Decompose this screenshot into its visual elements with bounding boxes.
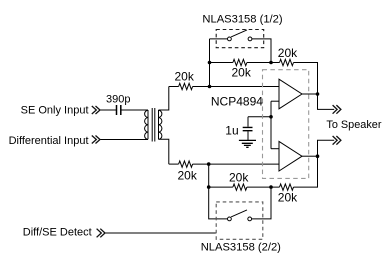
wire upper switch right contact xyxy=(252,39,271,63)
junction dot upper gain node right xyxy=(269,61,273,65)
wire Differential Input to T1 primary bottom xyxy=(99,139,148,141)
svg-text:To Speaker: To Speaker xyxy=(326,119,381,131)
svg-text:NCP4894: NCP4894 xyxy=(211,94,263,108)
capacitor C1 390p xyxy=(117,105,121,115)
resistor R2 20k (lower input) xyxy=(179,161,193,167)
transformer T1 secondary winding xyxy=(159,110,162,139)
wire lower input line to op-amp xyxy=(193,163,279,165)
svg-text:390p: 390p xyxy=(106,94,130,106)
resistor R4 20k (upper feedback) xyxy=(280,59,294,65)
chevron Differential Input xyxy=(92,136,100,144)
resistor R6 20k (lower feedback) xyxy=(280,184,294,190)
svg-text:20k: 20k xyxy=(175,69,195,83)
wire upper input line left segment xyxy=(169,86,179,88)
op-amp U1a inverting input stub xyxy=(271,100,279,102)
wire internal reference tie xyxy=(270,101,272,149)
wire C1 to transformer T1 primary top xyxy=(121,109,148,111)
chevron output bottom xyxy=(333,136,341,145)
switch S1 actuator xyxy=(231,30,247,37)
wire upper input line to op-amp xyxy=(193,86,279,88)
wire upper switch left contact xyxy=(210,38,228,40)
wire SE input to C1 xyxy=(99,109,116,111)
svg-text:NLAS3158 (2/2): NLAS3158 (2/2) xyxy=(201,241,281,253)
wire lower switch right contact xyxy=(252,187,271,219)
wire C2 to ground xyxy=(247,131,249,140)
wire Diff/SE Detect xyxy=(105,232,216,234)
wire upper switch left leg xyxy=(209,39,211,87)
wire upper feedback to output node xyxy=(294,63,335,110)
wire T1 secondary bottom to lower input line xyxy=(159,139,169,164)
dashed box op-amps NCP4894 xyxy=(263,70,309,179)
svg-text:20k: 20k xyxy=(229,170,249,184)
junction dot reference bypass node xyxy=(269,115,273,119)
wire upper feedback line left segment xyxy=(210,62,233,64)
switch S2 actuator xyxy=(231,210,247,217)
capacitor C2 1u xyxy=(243,127,253,130)
svg-text:NLAS3158 (1/2): NLAS3158 (1/2) xyxy=(202,13,282,25)
transformer T1 primary winding xyxy=(145,110,148,139)
wire upper feedback mid segment xyxy=(247,62,280,64)
op-amp U1b noninverting input stub xyxy=(271,148,279,150)
switch S2 left contact circle xyxy=(228,217,232,221)
wire lower input line left segment xyxy=(169,163,179,165)
junction dot upper input node xyxy=(208,85,212,89)
dashed box switch S1 NLAS3158 (1/2) xyxy=(216,30,264,48)
svg-text:20k: 20k xyxy=(232,66,252,80)
svg-text:Differential Input: Differential Input xyxy=(9,135,89,147)
junction dot upper output node xyxy=(316,92,320,96)
junction dot lower gain node right xyxy=(269,185,273,189)
chevron output top xyxy=(333,105,341,114)
wire lower feedback mid segment xyxy=(247,186,280,188)
junction dot lower output node xyxy=(316,154,320,158)
op-amp U1a triangle xyxy=(279,79,302,109)
junction dot upper gain node left xyxy=(208,61,212,65)
junction dot lower gain node left xyxy=(207,185,211,189)
chevron SE Only Input xyxy=(92,106,100,114)
op-amp U1b output wire xyxy=(302,155,318,157)
transformer T1 core xyxy=(152,108,155,142)
wire reference to bypass cap xyxy=(248,117,271,127)
dashed box switch S2 NLAS3158 (2/2) xyxy=(216,202,263,239)
switch S2 right contact circle xyxy=(248,217,252,221)
switch S1 right contact circle xyxy=(248,37,252,41)
wire lower switch left leg xyxy=(209,164,228,219)
wire T1 secondary top to upper input line xyxy=(159,87,169,111)
op-amp U1a output wire xyxy=(302,93,318,95)
op-amp U1b triangle xyxy=(279,141,302,171)
wire lower feedback to output node xyxy=(294,140,335,187)
resistor R1 20k (upper input) xyxy=(179,83,193,89)
svg-text:SE Only Input: SE Only Input xyxy=(21,104,89,116)
resistor R3 20k (upper gain) xyxy=(233,59,247,65)
svg-text:20k: 20k xyxy=(278,190,298,204)
svg-text:1u: 1u xyxy=(225,123,238,137)
ground symbol xyxy=(239,140,256,147)
svg-text:20k: 20k xyxy=(178,169,198,183)
svg-text:20k: 20k xyxy=(278,46,298,60)
wire lower feedback line left segment xyxy=(209,186,233,188)
junction dot lower input node xyxy=(207,162,211,166)
switch S1 left contact circle xyxy=(228,37,232,41)
resistor R5 20k (lower gain) xyxy=(233,184,247,190)
chevron Diff/SE Detect xyxy=(97,229,105,238)
svg-text:Diff/SE Detect: Diff/SE Detect xyxy=(23,227,92,239)
